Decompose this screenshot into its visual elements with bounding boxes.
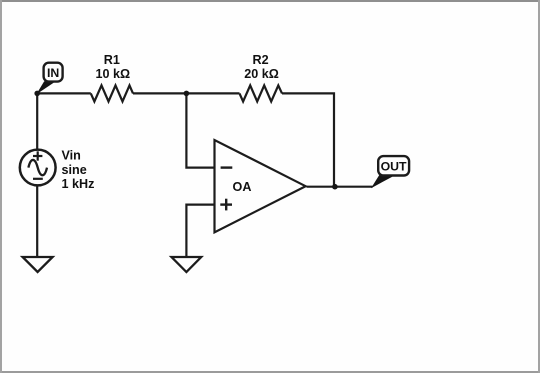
ground (below op-amp non-inverting input) xyxy=(172,257,202,272)
value label: Vin sine 1 kHz xyxy=(62,148,95,191)
svg-text:IN: IN xyxy=(47,66,59,80)
node A junction dot xyxy=(184,91,190,97)
node: IN junction dot xyxy=(34,91,40,97)
wire: node A down and right to op-amp inverting input xyxy=(186,93,214,167)
svg-text:10 kΩ: 10 kΩ xyxy=(95,67,130,81)
IN label flag tail xyxy=(36,81,54,94)
svg-text:OA: OA xyxy=(233,180,252,194)
wire: IN node to R1 left xyxy=(37,92,91,94)
op-amp OA xyxy=(215,140,306,232)
wire: voltage source bottom to ground xyxy=(36,186,38,258)
svg-text:sine: sine xyxy=(62,163,87,177)
svg-text:R2: R2 xyxy=(253,53,269,67)
svg-text:OUT: OUT xyxy=(381,160,407,174)
resistor R2 xyxy=(240,85,283,101)
OUT label flag tail xyxy=(371,175,393,189)
ground (below voltage source) xyxy=(23,257,53,272)
OUT label box xyxy=(378,156,409,175)
wire: node A to R2 left xyxy=(186,92,239,94)
voltage source V1 (Vin sine) xyxy=(20,150,56,186)
node: output junction dot xyxy=(332,184,338,190)
wire: R1 right to node A xyxy=(133,92,186,94)
resistor R1 xyxy=(91,85,133,101)
svg-text:R1: R1 xyxy=(104,53,120,67)
wire: op-amp output to OUT tap xyxy=(307,186,373,188)
wire: IN node down to voltage source top xyxy=(36,93,38,149)
svg-text:20 kΩ: 20 kΩ xyxy=(244,67,279,81)
wire: op-amp non-inverting input left and down to ground xyxy=(186,205,214,258)
wire: R2 right to feedback corner and down to output node xyxy=(282,93,334,186)
svg-text:Vin: Vin xyxy=(62,148,81,162)
svg-text:1 kHz: 1 kHz xyxy=(62,177,95,191)
IN label box xyxy=(44,63,63,82)
